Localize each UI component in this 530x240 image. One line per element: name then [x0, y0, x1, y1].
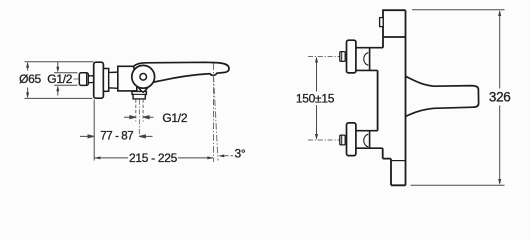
- top connector block: [356, 48, 383, 71]
- dimension G1/2 inlet dimension line: [57, 62, 59, 96]
- bottom connector block: [356, 131, 383, 149]
- top connector inner arc: [364, 53, 369, 66]
- top inlet centerline: [308, 56, 352, 58]
- dimension G1/2 outlet left arrow: [124, 116, 136, 119]
- dimension Ø65 arrow up: [26, 62, 29, 68]
- collar behind flange: [103, 69, 108, 92]
- temperature stop button: [380, 18, 384, 27]
- svg-text:G1/2: G1/2: [47, 72, 72, 86]
- svg-text:150±15: 150±15: [296, 91, 335, 105]
- lever handle and spout (side view): [134, 62, 230, 84]
- svg-text:Ø65: Ø65: [19, 72, 41, 86]
- dimension 77-87 left arrow: [80, 135, 94, 138]
- outlet extension line right: [142, 100, 144, 122]
- water stream 3 degree line: [214, 76, 219, 161]
- outlet extension line left: [135, 100, 137, 122]
- dimension 326 extension line bottom: [411, 184, 505, 186]
- dimension Ø65 arrow down: [26, 92, 29, 98]
- dimension 326 extension line top: [412, 9, 505, 11]
- dimension 326 arrow up: [498, 10, 501, 16]
- bottom inlet nipple: [340, 135, 345, 145]
- bottom outlet block: [132, 91, 146, 99]
- dimension Ø65 dimension line: [27, 63, 29, 97]
- dimension G1/2 inlet extension lines: [54, 73, 78, 85]
- dimension 215-225 left arrow: [94, 156, 100, 159]
- body column outline: [378, 10, 406, 185]
- inlet centerline: [74, 78, 81, 80]
- neck: [109, 72, 118, 88]
- dimension 326 dimension line: [499, 12, 501, 184]
- 3 degree leader arrow: [218, 154, 224, 157]
- outlet centerline: [138, 100, 140, 139]
- dimension 215-225 dimension line: [94, 157, 213, 159]
- wall flange (side view): [94, 62, 104, 98]
- svg-text:77 - 87: 77 - 87: [100, 130, 133, 142]
- top wall flange: [347, 40, 356, 73]
- svg-text:3°: 3°: [235, 146, 246, 160]
- spout (front view): [406, 76, 479, 116]
- inlet fitting nut cap line: [86, 73, 88, 85]
- bottom outlet mid line: [132, 93, 146, 95]
- bottom cap top line: [391, 160, 406, 162]
- dimension 77-87 right arrow: [139, 135, 152, 138]
- valve body block: [118, 66, 137, 91]
- svg-text:326: 326: [489, 90, 511, 105]
- handle cap circle: [132, 65, 155, 88]
- bottom connector inner arc: [364, 134, 369, 147]
- bottom wall flange: [347, 123, 356, 156]
- svg-text:215 - 225: 215 - 225: [129, 151, 178, 165]
- dimension Ø65 extension line top: [25, 61, 94, 63]
- dimension G1/2 inlet arrow down: [56, 67, 59, 73]
- wall plane extension line: [93, 100, 95, 161]
- handle hub circle: [140, 74, 147, 81]
- dimension 150±15 arrow down: [315, 134, 318, 140]
- top inlet nipple: [340, 52, 345, 62]
- inlet fitting union nut: [79, 73, 88, 86]
- inlet fitting nipple: [88, 76, 94, 83]
- dimension 215-225 right arrow: [207, 156, 213, 159]
- dimension Ø65 extension line bottom: [25, 97, 93, 99]
- dimension G1/2 outlet right arrow: [143, 116, 153, 119]
- svg-text:G1/2: G1/2: [162, 111, 187, 125]
- dimension 150±15 arrow up: [315, 57, 318, 63]
- bottom inlet centerline: [308, 139, 352, 141]
- dimension 326 arrow down: [498, 179, 501, 185]
- drip point below valve: [137, 81, 150, 93]
- dimension G1/2 inlet arrow up: [56, 85, 59, 91]
- 3 degree leader line: [225, 155, 234, 157]
- spout axis vertical centerline: [213, 64, 215, 163]
- dimension 150±15 dimension line: [316, 58, 318, 139]
